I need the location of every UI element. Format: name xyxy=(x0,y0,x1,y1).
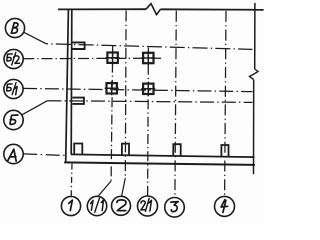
label 1/1 (handwritten) xyxy=(91,200,93,210)
label 1 (handwritten) xyxy=(69,200,73,211)
leader from circle B- (diagonal) xyxy=(22,101,48,115)
column C2 at 1/1 x B/1 xyxy=(107,83,117,93)
pilaster P4 on bottom wall (axis 4) xyxy=(221,145,228,156)
axis line B (horizontal dash-dot) xyxy=(46,44,253,50)
label B/2 (handwritten) xyxy=(7,54,12,61)
label B- (handwritten Cyrillic Be) xyxy=(10,115,18,124)
pilaster P2 on bottom wall (axis 2) xyxy=(122,144,129,155)
label 2/1 (handwritten) xyxy=(141,201,146,210)
axis line B/2 (horizontal dash-dot, short) xyxy=(23,57,161,60)
axis circle B/2 xyxy=(4,49,23,68)
axis circle 4 xyxy=(215,196,235,216)
axis circle 2 xyxy=(112,196,131,215)
axis line B- (horizontal dash-dot) xyxy=(47,101,252,103)
wall bracket at axis B- xyxy=(72,98,84,104)
label A (handwritten) xyxy=(8,149,17,161)
column C2 axis cross xyxy=(105,81,119,95)
column C4 at 2/1 x B/1 xyxy=(143,84,153,94)
axis 3 vertical (dash-dot) xyxy=(175,11,176,198)
axis 2 leader to circle xyxy=(122,178,126,196)
label B/1 (handwritten) xyxy=(7,84,12,91)
left wall outer line xyxy=(66,10,69,163)
axis 1 vertical leader below wall xyxy=(70,164,73,196)
axis circle B/1 xyxy=(4,79,23,98)
pilaster P3 on bottom wall (axis 3) xyxy=(173,144,180,155)
pilaster P1 on bottom wall (axis 1) xyxy=(74,144,82,155)
top wall break symbol xyxy=(146,4,161,15)
column C3 axis cross xyxy=(141,51,155,65)
axis circle A xyxy=(4,144,23,163)
column C3 at 2/1 x B/2 xyxy=(143,53,153,63)
axis 4 vertical (dash-dot) xyxy=(225,11,226,196)
bottom wall outer line xyxy=(64,162,255,165)
right break line lower segment xyxy=(253,80,255,175)
label 3 (handwritten) xyxy=(171,202,178,212)
axis 1/1 vertical (dash-dot) xyxy=(111,45,113,181)
leader from circle B (diagonal) xyxy=(24,32,46,44)
bottom wall inner line xyxy=(71,154,255,157)
right break symbol xyxy=(250,69,259,80)
right break line upper segment xyxy=(254,3,256,69)
axis line A (horizontal dash-dot to wall) xyxy=(23,154,64,156)
top wall line left of break xyxy=(58,8,146,10)
top wall line right of break xyxy=(161,8,264,11)
column C1 at 1/1 x B/2 xyxy=(107,53,117,63)
axis circle 2/1 xyxy=(138,196,158,216)
axis circle 1/1 xyxy=(87,196,106,215)
label 2 (handwritten) xyxy=(117,200,126,211)
axis circle 1 xyxy=(61,196,80,215)
axis 1/1 diagonal leader to circle xyxy=(98,181,111,196)
axis circle B xyxy=(5,18,24,37)
axis circle 3 xyxy=(165,198,185,218)
axis line B/1 (horizontal dash-dot) xyxy=(23,88,252,91)
wall bracket at axis B xyxy=(72,42,84,49)
column C1 axis cross xyxy=(106,51,120,65)
axis 2 vertical (dash-dot) xyxy=(124,11,127,179)
column C4 axis cross xyxy=(141,82,155,96)
label B (handwritten Cyrillic Ve) xyxy=(11,23,18,33)
label 4 (handwritten) xyxy=(221,200,228,213)
axis 2/1 vertical (dash-dot) xyxy=(147,48,150,196)
left wall inner line xyxy=(70,10,73,154)
axis circle B- xyxy=(4,110,23,129)
